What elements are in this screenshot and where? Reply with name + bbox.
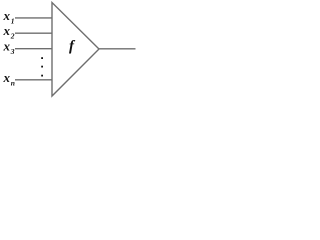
svg-text:x: x bbox=[3, 70, 11, 85]
svg-text:n: n bbox=[11, 78, 15, 87]
vertical ellipsis dots bbox=[41, 57, 43, 59]
svg-text:2: 2 bbox=[10, 32, 15, 41]
wire input x2 bbox=[15, 32, 53, 34]
svg-text:f: f bbox=[69, 39, 76, 55]
wire input xn bbox=[15, 79, 53, 81]
wire output bbox=[99, 48, 136, 50]
svg-text:x: x bbox=[3, 8, 11, 23]
triangle function body bbox=[52, 3, 99, 97]
svg-text:3: 3 bbox=[10, 47, 15, 56]
svg-text:x: x bbox=[3, 23, 11, 38]
svg-text:x: x bbox=[3, 39, 11, 54]
wire input x3 bbox=[15, 48, 53, 50]
svg-text:1: 1 bbox=[11, 16, 15, 25]
wire input x1 bbox=[15, 17, 53, 19]
